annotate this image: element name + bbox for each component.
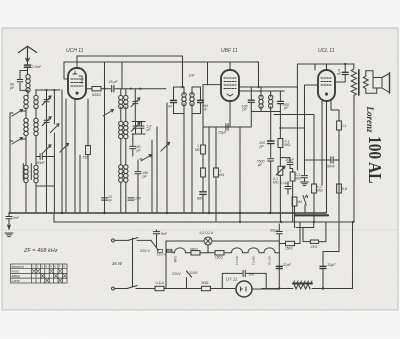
mains switch 2 xyxy=(127,286,153,289)
electrolytic 32uF no2 xyxy=(320,266,326,268)
cap 30nF horizontal xyxy=(36,154,54,160)
cap 25pF xyxy=(112,86,114,92)
heater humps UCL UBF UCH xyxy=(232,248,243,253)
avc chain down x270.7 xyxy=(270,112,272,141)
cap 7500pF xyxy=(268,159,274,161)
tube UCL11 internals xyxy=(321,78,332,85)
wire x54.5 xyxy=(53,90,55,213)
wires trimmers xyxy=(132,122,145,135)
vertical x240 xyxy=(239,127,241,222)
coil core bars xyxy=(23,164,31,180)
svg-text:100 AL: 100 AL xyxy=(365,136,385,184)
resistor 0,1M avc xyxy=(279,112,281,139)
mains terminal 1 xyxy=(112,239,115,242)
mains line 2 xyxy=(115,288,128,290)
B+ distribution wires top of power section xyxy=(323,251,339,253)
wire anode right to IF2 xyxy=(258,62,260,87)
switch osc band xyxy=(50,124,59,133)
cap IF2 left 100pF xyxy=(248,100,254,102)
cap 5nF output xyxy=(342,72,348,74)
UY11 bypass rect + 5nF xyxy=(222,273,266,288)
vertical x75 (tube pin) xyxy=(74,99,76,213)
resistor 680 heater xyxy=(191,251,200,255)
thick bus end xyxy=(295,214,328,216)
mains line 1 xyxy=(115,239,129,241)
cap 280pF on x131 xyxy=(128,198,134,200)
IF1 tank2 ring xyxy=(192,87,201,213)
wire UBF left pin xyxy=(203,84,221,86)
IF1 tank1 cap xyxy=(171,100,177,102)
resistor x203 low xyxy=(201,168,206,177)
switch on x104.5 xyxy=(103,110,113,116)
wire down left of UCL xyxy=(314,64,316,70)
bus junction dots xyxy=(62,212,270,214)
arrow band switch xyxy=(42,145,51,154)
resistor 0,1M x339 xyxy=(337,121,342,130)
cap IF2 right 500pF xyxy=(277,101,283,103)
wire top bus A y56 xyxy=(77,56,183,68)
tube UBF11 xyxy=(221,70,239,101)
osc coils top xyxy=(119,95,123,108)
wire coil to x54 xyxy=(36,185,54,187)
mains terminal 2 xyxy=(112,287,115,290)
IF1 tank2 cap xyxy=(198,100,204,102)
voltage selector diagonal xyxy=(151,240,159,250)
vertical x203 xyxy=(202,85,204,145)
IF1 tank1 coil xyxy=(182,93,186,106)
switch in osc xyxy=(141,155,151,161)
switch S1 xyxy=(12,110,22,116)
IF2 coils xyxy=(259,95,263,108)
wave table xyxy=(11,264,68,283)
cap 20uF xyxy=(280,158,293,169)
grid coupling line to UCL xyxy=(274,114,314,116)
branch y227.5 + resistor 21ohm xyxy=(296,222,326,242)
volume pot xyxy=(278,166,283,175)
electrolytic 32uF no1 xyxy=(276,266,282,268)
variable cap osc xyxy=(133,101,138,103)
resistor 0,1M grid UCL xyxy=(312,184,317,193)
antenna coil L1 xyxy=(26,75,30,93)
svg-text:Lorenz: Lorenz xyxy=(365,106,375,133)
cap 5nF + gnd left of output xyxy=(302,160,308,181)
cap 5nF mains xyxy=(153,230,159,247)
wire x66 xyxy=(65,99,67,213)
wire x297 xyxy=(296,64,298,170)
resistor 1M x294.5 xyxy=(292,197,297,206)
detector wire y127 xyxy=(203,112,251,128)
transformer secondary xyxy=(363,76,368,89)
vertical x230 (tube pin down) xyxy=(229,101,231,127)
trimmer row mid caps xyxy=(133,126,138,128)
transformer core xyxy=(358,70,360,95)
vertical x216 + resistor 1M xyxy=(215,127,217,168)
ground symbol main xyxy=(8,225,11,229)
vertical x157 xyxy=(156,127,158,213)
vertical x352.5 xyxy=(352,222,354,289)
trimmer 60pF xyxy=(17,71,27,91)
line y222 right xyxy=(240,221,353,223)
avc arrow mid xyxy=(60,143,69,152)
IF2 wires xyxy=(251,87,280,112)
wire y128 xyxy=(280,127,304,129)
wires coil columns xyxy=(26,108,36,213)
electrolytic 50uF xyxy=(276,232,282,234)
IF1 tank1 ring xyxy=(174,87,185,213)
vertical x122 from B down xyxy=(121,62,123,89)
resistor 150 right xyxy=(286,241,295,245)
coil L4 column x26 xyxy=(24,118,28,136)
fuse hump xyxy=(175,248,186,253)
vertical x167 with arrow xyxy=(166,103,168,213)
wire anode down IF1 xyxy=(182,56,184,87)
resistor 150 heater2 xyxy=(215,251,224,255)
bottom line power xyxy=(262,288,353,290)
coil L5 column x36 xyxy=(34,118,38,136)
tube UCL11 xyxy=(318,70,335,101)
vertical x279.3 xyxy=(278,224,280,289)
top bus y64 output xyxy=(297,63,353,65)
tube UCH11 xyxy=(68,68,86,99)
ganged switch link xyxy=(132,238,134,287)
left wire x10 xyxy=(9,113,11,213)
resistor 0,2M xyxy=(290,169,293,173)
tuning cap with arrow xyxy=(44,120,49,122)
tube UCH11 internals xyxy=(71,71,83,86)
resistor 150k on x88 xyxy=(86,146,91,155)
trimmer cap xyxy=(44,90,49,119)
faint page split line xyxy=(2,229,398,231)
tube UBF11 internals xyxy=(224,78,236,89)
osc coils middle xyxy=(119,121,123,139)
cap 50pF xyxy=(130,134,136,156)
padder cap x152 xyxy=(151,140,153,213)
mains switch 1 xyxy=(128,238,151,241)
cap 25uF on y127 xyxy=(226,124,228,130)
IF1 tank2 coil xyxy=(190,93,194,106)
wire UBF right pins xyxy=(239,87,297,91)
vertical x104.5 xyxy=(104,62,106,213)
vertical x209 xyxy=(208,127,210,213)
antenna xyxy=(19,46,37,61)
cap 680 x203 xyxy=(200,192,206,195)
resistor 600 xyxy=(92,87,101,91)
wire node to bandfilter xyxy=(28,90,36,96)
selector contacts xyxy=(158,249,163,252)
ground bus xyxy=(9,212,326,214)
vertical x88 xyxy=(87,99,89,146)
UCL left wires xyxy=(305,85,319,160)
bandfilter coils L2/L3 xyxy=(24,95,28,108)
field coil choke xyxy=(293,283,312,285)
osc coils lower xyxy=(119,165,123,183)
vertical x62 (cathode) xyxy=(61,90,63,213)
cap 5nF to ground left xyxy=(6,213,12,228)
cap 50nF xyxy=(305,157,340,163)
output transformer primary xyxy=(353,96,355,223)
tube UBF top pin xyxy=(229,62,231,70)
wire x80 xyxy=(79,155,81,213)
cap 22nF on x104.5 xyxy=(102,198,108,200)
rectifier tube UY11 xyxy=(236,281,252,297)
wire antenna to coil xyxy=(27,62,29,75)
wire x207.5 xyxy=(207,62,209,85)
resistor 1M x203 xyxy=(201,145,206,154)
cap 100pF osc xyxy=(135,160,141,179)
switch S2 xyxy=(12,138,22,144)
wire y89.6 + resistor xyxy=(86,88,166,90)
wire grid line B y62 xyxy=(64,62,259,79)
b+ line y224 xyxy=(54,213,354,222)
wire switch links xyxy=(10,111,26,141)
lamp wires xyxy=(166,240,279,242)
switch on x314? xyxy=(303,195,308,205)
speaker xyxy=(373,71,382,94)
cap 100pF avc xyxy=(268,141,275,144)
UCL top pin xyxy=(326,64,328,70)
resistor 0,8M xyxy=(337,184,342,193)
cap 0,1uF near x288 xyxy=(285,182,291,194)
capacitor C-ant 2,5nF xyxy=(24,65,30,67)
wire UY out xyxy=(252,288,279,290)
UCL bottom pins xyxy=(322,101,339,213)
cap 22nF left xyxy=(46,124,48,213)
